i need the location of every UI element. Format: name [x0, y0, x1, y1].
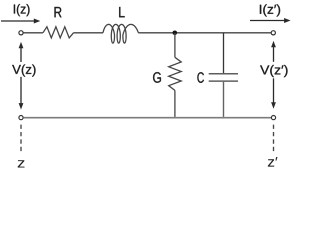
wire top-left lead	[23, 32, 43, 34]
label I(z')	[260, 4, 280, 16]
label R	[54, 7, 61, 17]
wire between R and L	[74, 32, 104, 34]
dashed reference line right	[273, 125, 275, 152]
terminal node top-right	[271, 31, 275, 35]
voltage arrow V(z') up	[271, 41, 276, 62]
label G	[153, 72, 161, 83]
terminal node bottom-left	[19, 116, 23, 120]
wire shunt stub to C	[223, 33, 225, 73]
label I(z)	[14, 4, 30, 16]
voltage arrow V(z') down	[271, 78, 276, 108]
conductance G (vertical resistor)	[169, 57, 182, 90]
label C	[197, 72, 204, 83]
capacitor C plates	[209, 74, 238, 81]
inductor L	[103, 24, 138, 43]
voltage arrow V(z) up	[19, 42, 24, 62]
node label z'	[268, 157, 278, 166]
terminal node bottom-right	[271, 116, 275, 120]
wire top-right	[138, 32, 271, 34]
junction dot	[173, 31, 178, 36]
wire C to bottom rail	[223, 82, 225, 117]
bottom rail wire	[23, 117, 271, 119]
resistor R	[43, 27, 74, 38]
current arrow I(z)	[1, 19, 40, 24]
wire shunt stub to G	[174, 33, 176, 57]
current arrow I(z')	[250, 18, 291, 23]
wire G to bottom rail	[174, 90, 176, 117]
label V(z)	[12, 64, 35, 76]
dashed reference line left	[20, 125, 22, 152]
voltage arrow V(z) down	[19, 77, 24, 110]
terminal node top-left	[19, 31, 23, 35]
node label z	[18, 160, 25, 167]
label V(z')	[260, 65, 287, 77]
label L	[119, 7, 124, 17]
